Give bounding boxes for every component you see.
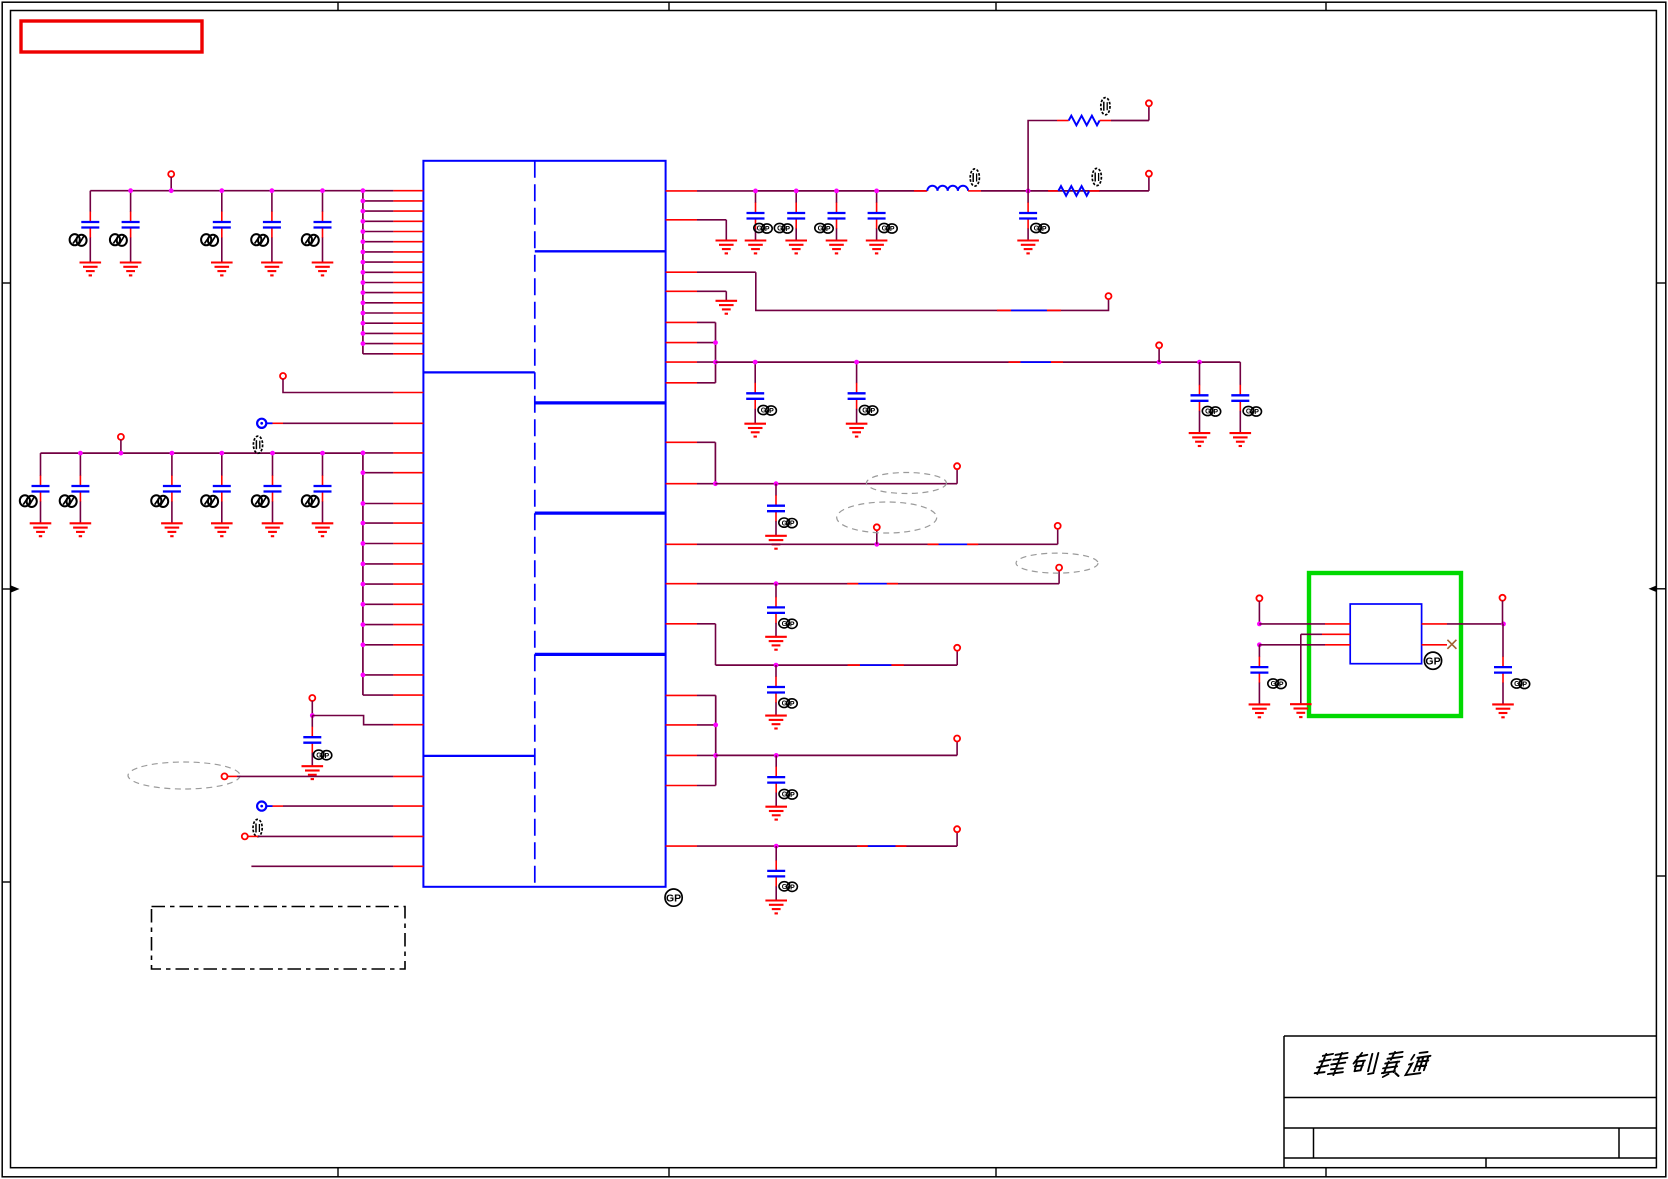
U1 left pin stub y262.1	[363, 261, 424, 263]
IC U1 right section divider 2	[535, 401, 666, 404]
terminal R2 stem	[1148, 177, 1150, 191]
wire R2 to terminal	[1100, 190, 1149, 192]
svg-text:P: P	[790, 621, 795, 628]
capacitor C6	[32, 486, 50, 492]
svg-text:P: P	[1213, 409, 1218, 416]
terminal VCC2	[118, 434, 124, 440]
junction bus1 y231.5	[361, 229, 366, 234]
wire U2 in1	[1259, 623, 1350, 625]
U1 right pin g3 railG	[666, 754, 716, 756]
junction rail E cap	[774, 581, 779, 586]
U1 left pin stub y241.7	[363, 241, 424, 243]
junction rail2 C9	[219, 451, 224, 456]
capacitor C28 lead	[1502, 624, 1504, 705]
terminal NET-R2	[1146, 171, 1152, 177]
pin bus C	[714, 442, 716, 483]
value label C14	[774, 223, 792, 233]
junction bus2 y674.9	[361, 673, 366, 678]
U1 right pin c1	[666, 441, 716, 443]
ground under C4	[261, 263, 283, 276]
svg-text:G: G	[782, 520, 788, 527]
terminal railH stem	[956, 832, 958, 846]
capacitor C2	[122, 222, 140, 228]
wire gnd2	[725, 291, 727, 301]
rail F colour segment	[848, 664, 904, 666]
ground GND2	[716, 301, 738, 314]
svg-text:G: G	[316, 752, 322, 759]
U1 left pin stub y313.0	[363, 312, 424, 314]
VCC rail 1	[90, 190, 363, 192]
U1 left pin stub y543.5	[363, 543, 424, 545]
junction bus1 y200.9	[361, 199, 366, 204]
terminal railC stem	[956, 469, 958, 484]
pin stub NET-L2	[393, 392, 423, 394]
value label C8	[151, 495, 168, 507]
capacitor C10 lead	[272, 453, 274, 523]
ground under C1	[80, 263, 102, 276]
terminal R1 stem	[1148, 106, 1150, 120]
resistor R2	[1058, 186, 1089, 196]
rail D	[877, 543, 1058, 545]
svg-text:P: P	[1279, 682, 1284, 689]
svg-text:G: G	[882, 226, 888, 233]
U1 right pin railH	[666, 845, 777, 847]
rail H	[776, 845, 957, 847]
U1 left pin stub y472.7	[363, 472, 424, 474]
U1 left pin stub y333.4	[363, 332, 424, 334]
U1 right pin railE	[666, 583, 776, 585]
U1 left pin stub y343.6	[363, 343, 424, 345]
junction rail2 terminal	[119, 451, 124, 456]
U1 left pin stub y523.1	[363, 522, 424, 524]
value label C23	[779, 619, 797, 629]
ground under C28	[1492, 704, 1514, 717]
junction rail C cap	[774, 481, 779, 486]
ground under C5	[312, 263, 334, 276]
value label C11	[302, 495, 319, 507]
ground under C16	[866, 241, 888, 254]
capacitor C11	[314, 486, 332, 492]
ground under C3	[211, 263, 233, 276]
terminal U2 left stem	[1258, 601, 1260, 624]
capacitor C9	[213, 486, 231, 492]
junction rail A C16	[874, 189, 879, 194]
junction bus1 y241.7	[361, 239, 366, 244]
terminal NET-RB	[1156, 342, 1162, 348]
green highlight box	[1309, 573, 1461, 716]
junction bus1 y211.1	[361, 209, 366, 214]
U1 right pin b1	[666, 321, 716, 323]
junction bus1 y292.6	[361, 290, 366, 295]
terminal NET-R3	[1106, 293, 1112, 299]
svg-text:G: G	[1034, 226, 1040, 233]
ground under C26	[765, 901, 787, 914]
VCC rail 2	[41, 452, 363, 454]
value label C25	[779, 789, 797, 799]
capacitor C8 lead	[171, 453, 173, 523]
ground under C2	[120, 263, 142, 276]
rail B	[716, 361, 1241, 363]
svg-text:G: G	[757, 226, 763, 233]
ground under C17	[1017, 241, 1039, 254]
capacitor C18 lead	[754, 362, 756, 424]
capacitor C17 lead	[1027, 191, 1029, 241]
U1 left pin stub y452.9	[363, 452, 424, 454]
junction bus C	[713, 481, 718, 486]
pin stub NET-L3	[393, 724, 423, 726]
svg-text:G: G	[1514, 681, 1520, 688]
ground under C10	[262, 523, 284, 536]
U1 right pin g2	[666, 724, 716, 726]
svg-text:G: G	[818, 226, 824, 233]
net3 colour segment	[997, 309, 1061, 311]
value label C18	[758, 405, 776, 415]
junction bus B 1	[713, 340, 718, 345]
value label L-filter	[253, 436, 262, 453]
junction rail G cap	[774, 753, 779, 758]
svg-text:G: G	[777, 226, 783, 233]
inductor L1	[927, 186, 968, 191]
value label C13	[754, 223, 772, 233]
U1 left pin stub y200.9	[363, 200, 424, 202]
rail A	[756, 190, 927, 192]
junction bus1 y262.1	[361, 260, 366, 265]
rail C	[715, 483, 957, 485]
junction bus2 y543.5	[361, 541, 366, 546]
U1 left pin stub y231.5	[363, 231, 424, 233]
capacitor C7	[71, 486, 89, 492]
value label C28	[1511, 679, 1529, 689]
value label C22	[779, 518, 797, 528]
zone tick top 2	[668, 2, 670, 10]
value label C1	[70, 234, 87, 246]
zone tick top 1	[337, 2, 339, 10]
junction rail2 C7	[78, 451, 83, 456]
junction bus2 y472.7	[361, 470, 366, 475]
ground under C9	[211, 523, 233, 536]
ground under C27	[1249, 704, 1271, 717]
U1 right pin railA	[666, 190, 756, 192]
junction rail F cap	[774, 663, 779, 668]
svg-text:G: G	[1205, 409, 1211, 416]
capacitor C14 lead	[795, 191, 797, 241]
U1 left pin stub y221.3	[363, 220, 424, 222]
selection ellipse E1	[866, 473, 946, 494]
svg-text:P: P	[826, 226, 831, 233]
selection ellipse E2	[837, 502, 937, 533]
U1 left pin stub y211.1	[363, 210, 424, 212]
rail A wire to junction	[981, 190, 1100, 192]
svg-text:G: G	[782, 701, 788, 708]
U1 left pin stub y503.5	[363, 503, 424, 505]
junction bus2 y452.9	[361, 451, 366, 456]
ground under C19	[846, 424, 868, 437]
junction node A	[1026, 189, 1031, 194]
junction rail1 terminal	[169, 188, 174, 193]
junction bus1 y190.7	[361, 188, 366, 193]
junction bus B 2	[713, 360, 718, 365]
junction rail B C18	[753, 360, 758, 365]
value label C3	[201, 234, 218, 246]
capacitor C13	[747, 213, 765, 219]
wire R1 to terminal	[1111, 120, 1149, 122]
ground under C13	[745, 241, 767, 254]
ground GND1	[716, 241, 738, 254]
U1 left pin stub y323.2	[363, 322, 424, 324]
capacitor C5	[314, 222, 332, 228]
capacitor C21 lead	[1239, 362, 1241, 433]
U1 left pin stub y302.8	[363, 302, 424, 304]
rail A red seg before inductor	[914, 190, 927, 192]
wire NET-L3 to U1	[312, 716, 393, 725]
fold arrow left	[2, 586, 19, 593]
junction rail B terminal	[1157, 360, 1162, 365]
capacitor C3 lead	[221, 191, 223, 263]
svg-text:G: G	[1246, 409, 1252, 416]
wire NET-L5	[248, 835, 424, 837]
port P2	[257, 802, 266, 811]
value label C20	[1202, 406, 1220, 416]
IC U1 centre dashed divider	[534, 161, 536, 887]
junction bus1 y333.4	[361, 331, 366, 336]
junction rail2 C11	[320, 451, 325, 456]
capacitor C18	[746, 393, 764, 399]
port P1	[257, 419, 266, 428]
zone tick left 1	[2, 282, 10, 284]
terminal NET-RD2	[1055, 523, 1061, 529]
U1 left pin stub y292.6	[363, 292, 424, 294]
zone tick bottom 3	[995, 1168, 997, 1177]
junction bus2 y563.9	[361, 562, 366, 567]
wire U2 out1	[1422, 623, 1504, 625]
rail D colour segment	[928, 543, 979, 545]
terminal NET-RE	[1056, 565, 1062, 571]
terminal NET-RF	[954, 645, 960, 651]
wire gnd1	[725, 220, 727, 241]
capacitor C24 lead	[775, 665, 777, 716]
svg-text:P: P	[790, 701, 795, 708]
U1 left pin stub y272.3	[363, 271, 424, 273]
value label C21	[1243, 406, 1261, 416]
U1 left pin stub y644.8	[363, 644, 424, 646]
wire port P2	[273, 805, 424, 807]
value label C10	[252, 495, 269, 507]
capacitor C26	[767, 871, 785, 877]
terminal VCC1	[168, 171, 174, 177]
value label C24	[779, 698, 797, 708]
junction bus2 y523.1	[361, 521, 366, 526]
svg-text:G: G	[1271, 681, 1277, 688]
svg-text:P: P	[325, 753, 330, 760]
svg-text:GP: GP	[1425, 656, 1440, 668]
IC U1 right section divider 4	[535, 653, 666, 656]
zone tick left 2	[2, 881, 10, 883]
U1 right pin c2 railC	[666, 483, 716, 485]
ground under C18	[744, 424, 766, 437]
value label C15	[815, 223, 833, 233]
IC U1 right section divider 3	[535, 511, 666, 514]
junction rail2 C10	[270, 451, 275, 456]
U1 right pin g1	[666, 694, 716, 696]
svg-text:P: P	[790, 884, 795, 891]
resistor R2 red seg right	[1089, 190, 1099, 192]
junction bus1 y313.0	[361, 311, 366, 316]
capacitor C16	[868, 213, 886, 219]
U1 left pin stub y674.9	[363, 674, 424, 676]
terminal NET-RD1	[874, 524, 880, 530]
capacitor C27 lead	[1258, 645, 1260, 705]
value label C27	[1268, 679, 1286, 689]
svg-text:G: G	[862, 408, 868, 415]
capacitor C12	[303, 737, 321, 743]
junction bus2 y624.6	[361, 622, 366, 627]
U1 left pin stub y695.1	[363, 694, 424, 696]
capacitor C6 lead	[40, 453, 42, 523]
svg-text:P: P	[871, 408, 876, 415]
capacitor C22	[767, 506, 785, 512]
U1 right pin b2	[666, 342, 716, 344]
capacitor C28	[1494, 667, 1512, 673]
ground under C21	[1230, 433, 1252, 446]
value label C26	[779, 882, 797, 892]
value label R-series	[253, 819, 262, 836]
value label C7	[60, 495, 77, 507]
pin bus group2	[362, 453, 364, 695]
ground under C23	[765, 637, 787, 650]
terminal VCC1 stem	[170, 177, 172, 191]
wire NET-L6	[251, 865, 423, 867]
capacitor C16 lead	[876, 191, 878, 241]
junction rail1 C5	[320, 188, 325, 193]
ground under C6	[30, 523, 52, 536]
junction rail A C13	[753, 189, 758, 194]
wire NET-L2	[283, 379, 393, 393]
U1 left pin stub y584.1	[363, 583, 424, 585]
rail H colour segment	[857, 845, 906, 847]
terminal U2 right	[1500, 595, 1506, 601]
capacitor C12 lead	[311, 716, 313, 767]
rail F	[716, 664, 958, 666]
U1 left pin stub y604.3	[363, 603, 424, 605]
U1 left pin stub y563.9	[363, 563, 424, 565]
capacitor C14	[787, 213, 805, 219]
U1 right pin railD	[666, 543, 877, 545]
junction rail A C14	[794, 189, 799, 194]
U1 right pin gnd1	[666, 219, 727, 221]
zone tick top 3	[995, 2, 997, 10]
capacitor C17	[1019, 213, 1037, 219]
svg-text:P: P	[769, 408, 774, 415]
U1 right pin g4	[666, 785, 716, 787]
IC U1 left section divider 1	[423, 371, 534, 373]
wire U2 in3	[1259, 644, 1350, 646]
ground under C20	[1189, 433, 1211, 446]
red revision box	[21, 21, 202, 52]
junction rail A C15	[834, 189, 839, 194]
junction bus G 2	[713, 753, 718, 758]
svg-text:P: P	[1042, 226, 1047, 233]
svg-text:P: P	[790, 521, 795, 528]
junction bus1 y343.6	[361, 341, 366, 346]
resistor R1 red seg right	[1100, 120, 1111, 122]
terminal NET-L3	[309, 695, 315, 701]
junction bus1 y272.3	[361, 270, 366, 275]
junction rail1 C2	[128, 188, 133, 193]
resistor R1 red seg left	[1057, 120, 1069, 122]
ground U2 mid	[1290, 704, 1312, 717]
IC U2 body	[1350, 604, 1421, 664]
terminal NET-L3 stem	[311, 701, 313, 716]
value label C5	[302, 234, 319, 246]
title block frame	[1284, 1036, 1656, 1168]
ground under C12	[302, 766, 324, 779]
terminal VCC2 stem	[120, 440, 122, 453]
capacitor C10	[264, 486, 282, 492]
capacitor C27	[1250, 667, 1268, 673]
wire NET-L4	[227, 775, 423, 777]
junction rail H cap	[774, 844, 779, 849]
capacitor C24	[767, 687, 785, 693]
junction bus1 y323.2	[361, 321, 366, 326]
capacitor C1	[81, 222, 99, 228]
capacitor C15	[828, 213, 846, 219]
capacitor C26 lead	[775, 846, 777, 900]
terminal U2 left	[1256, 595, 1262, 601]
IC U1 body	[423, 161, 665, 887]
junction bus2 y644.8	[361, 642, 366, 647]
pin bus G	[715, 695, 717, 785]
capacitor C3	[213, 222, 231, 228]
value label C2	[110, 234, 127, 246]
IC U1 right section divider 1	[535, 250, 666, 252]
value label C4	[251, 234, 268, 246]
IC U1 left section divider 2	[423, 755, 534, 757]
svg-text:G: G	[782, 884, 788, 891]
junction U2 in1	[1257, 622, 1262, 627]
junction bus2 y584.1	[361, 582, 366, 587]
svg-text:P: P	[890, 226, 895, 233]
terminal railF stem	[956, 651, 958, 665]
value label C17	[1031, 223, 1049, 233]
capacitor C25 lead	[775, 755, 777, 806]
pin bus B	[715, 322, 717, 382]
wire node A up	[1028, 121, 1057, 191]
U1 left pin stub y190.7	[363, 190, 424, 192]
terminal railG stem	[956, 741, 958, 755]
svg-text:P: P	[790, 792, 795, 799]
resistor R2 red seg left	[1048, 190, 1058, 192]
junction U2 in2	[1257, 642, 1262, 647]
junction bus1 y221.3	[361, 219, 366, 224]
label GP at U1 bottom	[665, 889, 682, 906]
value label C19	[859, 405, 877, 415]
terminal NET-L4	[222, 773, 228, 779]
U1 right pin b4	[666, 382, 716, 384]
junction rail1 C4	[270, 188, 275, 193]
U1 right pin net3	[666, 271, 756, 273]
zone tick right 2	[1656, 875, 1666, 877]
zone tick bottom 1	[337, 1168, 339, 1177]
svg-text:P: P	[1254, 409, 1259, 416]
terminal NET-RG	[954, 736, 960, 742]
ground under C8	[161, 523, 183, 536]
wire port P1	[273, 422, 424, 424]
value label L1	[970, 169, 979, 186]
U1 left pin stub y282.5	[363, 282, 424, 284]
svg-text:P: P	[785, 226, 790, 233]
terminal NET-L2	[280, 373, 286, 379]
zone tick bottom 4	[1325, 1168, 1327, 1177]
